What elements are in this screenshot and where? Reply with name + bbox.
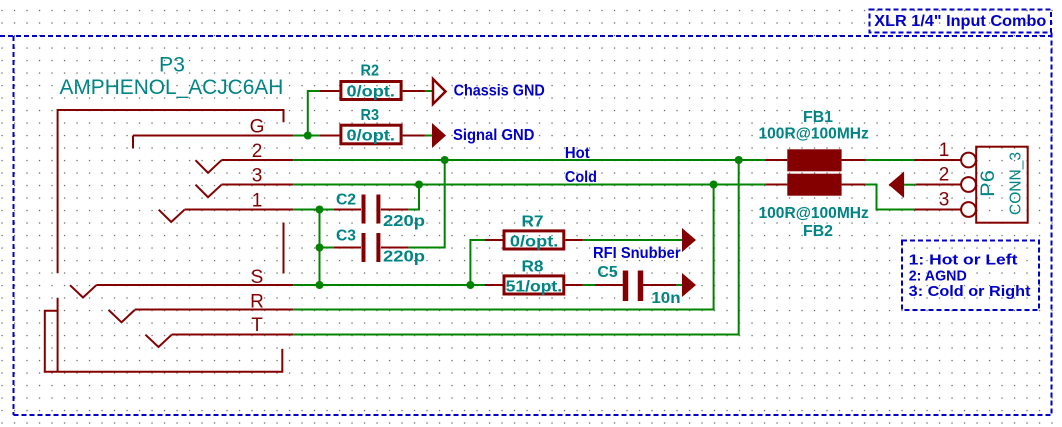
pin 2 switch contact and lead — [196, 160, 294, 173]
svg-text:100R@100MHz: 100R@100MHz — [759, 205, 869, 222]
ferrite bead FB2 body — [787, 174, 841, 196]
svg-text:2: 2 — [939, 165, 950, 186]
wire C5 output — [676, 284, 682, 286]
sheet title box — [870, 10, 1052, 33]
wire C2 right to Cold — [408, 185, 419, 210]
svg-text:RFI Snubber: RFI Snubber — [593, 245, 681, 262]
capacitor C2 leads — [334, 209, 409, 211]
capacitor C2 plates — [364, 195, 379, 224]
wire FB2 to P6 pin3 — [865, 185, 914, 210]
note box — [902, 241, 1039, 311]
capacitor C5 leads — [596, 284, 677, 286]
svg-text:0/opt.: 0/opt. — [510, 234, 558, 251]
wire R7 input — [470, 240, 485, 285]
junction Hot/C3 — [441, 156, 449, 164]
svg-text:FB1: FB1 — [803, 109, 833, 126]
wire C3 left — [320, 247, 334, 249]
svg-text:1: 1 — [252, 191, 263, 212]
svg-text:Chassis GND: Chassis GND — [454, 83, 545, 100]
svg-text:2: 2 — [252, 141, 263, 162]
junction Hot/T — [735, 156, 743, 164]
Chassis GND port arrow — [433, 79, 446, 104]
wire FB1 to P6 pin1 — [865, 159, 914, 161]
svg-text:Cold: Cold — [565, 169, 597, 186]
wire Cold net — [293, 184, 765, 186]
connector P6 body — [976, 147, 1027, 223]
svg-text:0/opt.: 0/opt. — [347, 128, 395, 145]
pin 1 switch contact and lead — [159, 210, 294, 223]
svg-text:AMPHENOL_ACJC6AH: AMPHENOL_ACJC6AH — [60, 76, 284, 99]
svg-text:Signal GND: Signal GND — [453, 127, 534, 144]
junction C3 left — [316, 244, 324, 252]
resistor R7 body — [504, 231, 564, 249]
junction G/R3 — [304, 132, 312, 140]
resistor R3 body — [341, 125, 401, 144]
svg-text:2: AGND: 2: AGND — [909, 267, 967, 284]
svg-text:3: 3 — [252, 166, 263, 187]
wire S net — [293, 284, 485, 286]
pin R switch contact and lead — [109, 310, 294, 323]
svg-text:FB2: FB2 — [803, 223, 833, 240]
svg-text:C3: C3 — [336, 227, 356, 244]
svg-text:51/opt.: 51/opt. — [506, 279, 562, 296]
resistor R7 leads — [485, 239, 583, 241]
capacitor C3 leads — [334, 247, 409, 249]
svg-text:R: R — [250, 292, 264, 313]
resistor R8 leads — [485, 284, 583, 286]
ferrite bead FB2 leads — [765, 184, 865, 186]
svg-text:P3: P3 — [159, 54, 185, 77]
C5 port arrow — [682, 273, 696, 297]
pin S switch contact and lead — [70, 285, 293, 298]
svg-text:R3: R3 — [361, 107, 380, 124]
svg-text:S: S — [251, 267, 264, 288]
ferrite bead FB1 body — [787, 149, 841, 171]
wire R net to Cold — [293, 185, 713, 310]
wire pin1 to S vertical — [319, 210, 321, 286]
svg-text:R7: R7 — [522, 214, 544, 231]
wire pin1 net — [293, 209, 333, 211]
resistor R2 body — [341, 82, 401, 100]
svg-text:P6: P6 — [978, 170, 999, 197]
wire Hot net — [293, 159, 765, 161]
svg-text:Hot: Hot — [565, 145, 590, 162]
ferrite bead FB1 leads — [765, 159, 865, 161]
wire G net — [293, 135, 320, 137]
capacitor C5 plates — [626, 271, 641, 302]
junction pin1 — [316, 206, 324, 214]
junction S — [316, 281, 324, 289]
wire R7 output — [583, 239, 682, 241]
svg-text:R8: R8 — [522, 259, 544, 276]
svg-text:CONN_3: CONN_3 — [1008, 152, 1025, 215]
connector P6 pin circles — [961, 153, 976, 217]
svg-text:3: 3 — [939, 190, 950, 211]
wire C3 right to Hot — [408, 160, 444, 248]
resistor R3 leads — [320, 135, 425, 137]
wire R8 output — [583, 284, 596, 286]
svg-text:220p: 220p — [383, 248, 425, 265]
junction S/R8 — [466, 281, 474, 289]
RFI Snubber port arrow — [682, 228, 696, 252]
svg-text:R2: R2 — [361, 63, 380, 80]
svg-text:1: 1 — [939, 140, 950, 161]
svg-text:3: Cold or Right: 3: Cold or Right — [909, 283, 1031, 300]
svg-text:T: T — [251, 315, 263, 336]
pin T switch contact and lead — [145, 335, 293, 348]
junction Cold/C2 — [415, 181, 423, 189]
connector P3 body outline — [44, 109, 284, 372]
resistor R8 body — [504, 276, 564, 294]
svg-text:220p: 220p — [383, 213, 425, 230]
svg-text:100R@100MHz: 100R@100MHz — [759, 125, 869, 142]
wire T net to Hot — [293, 160, 738, 335]
wire R2 output — [425, 90, 433, 92]
wire R3 output — [425, 135, 432, 137]
connector P6 leads — [914, 160, 961, 210]
svg-text:XLR 1/4" Input Combo: XLR 1/4" Input Combo — [874, 13, 1046, 30]
AGND port arrow left — [889, 172, 905, 199]
wire G to R2 — [308, 91, 320, 136]
svg-text:G: G — [250, 117, 265, 138]
Signal GND port arrow — [432, 123, 446, 148]
svg-text:0/opt.: 0/opt. — [347, 84, 395, 101]
capacitor C3 plates — [364, 233, 379, 262]
svg-text:C2: C2 — [336, 192, 356, 209]
svg-text:1: Hot or Left: 1: Hot or Left — [909, 251, 1018, 268]
wire AGND port stub — [904, 184, 916, 186]
pin 3 switch contact and lead — [196, 185, 294, 198]
svg-text:10n: 10n — [651, 290, 680, 307]
junction Cold/R — [710, 181, 718, 189]
resistor R2 leads — [320, 90, 425, 92]
svg-text:C5: C5 — [597, 264, 618, 281]
pin G lead — [133, 135, 293, 137]
